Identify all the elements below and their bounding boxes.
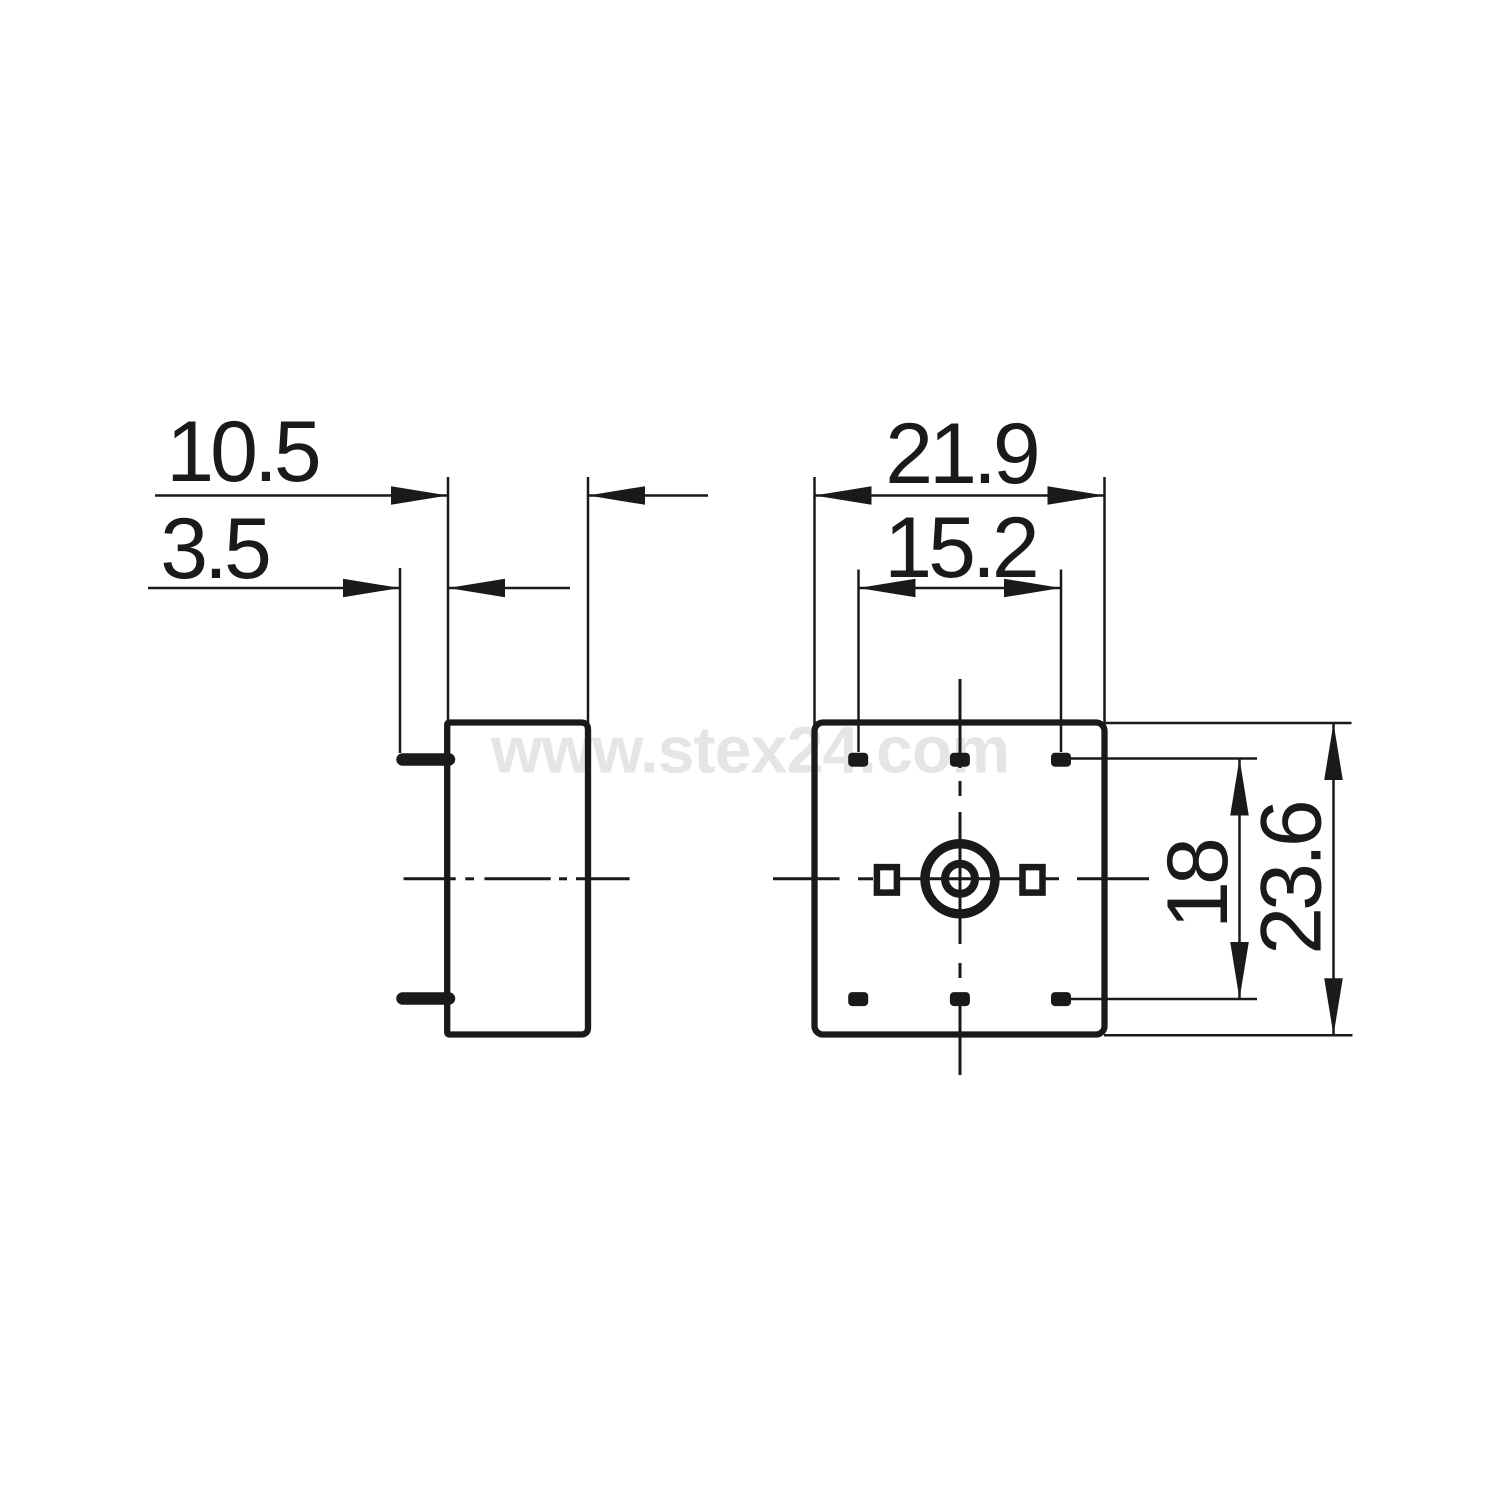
- extension line right-body-edge: [587, 477, 590, 736]
- extension line square-left: [813, 477, 816, 742]
- extension line square-right: [1103, 477, 1106, 742]
- svg-text:3.5: 3.5: [160, 501, 269, 597]
- dimension 10.5 arrow left: [391, 486, 448, 505]
- relay outline (bottom view square): [815, 723, 1105, 1035]
- extension line pads-right-column: [1060, 570, 1063, 753]
- extension line pin-end: [399, 568, 402, 753]
- dimension 18 arrow bottom: [1230, 942, 1249, 999]
- dimension 21.9 line: [815, 494, 1105, 497]
- side notch right: [1023, 867, 1043, 893]
- dimension 15.2 line: [859, 587, 1062, 590]
- pad bottom-left: [848, 992, 868, 1006]
- extension line square-bottom-right: [1104, 1034, 1353, 1037]
- guide boss inner circle: [945, 864, 975, 894]
- pad top-left: [848, 753, 868, 767]
- dimension 23.6 arrow bottom: [1324, 978, 1343, 1035]
- dimension 18 arrow top: [1230, 759, 1249, 816]
- centerline (left view horizontal dash-dot): [404, 877, 630, 880]
- dimension 15.2 arrow left: [859, 579, 916, 598]
- pad bottom-middle: [950, 992, 970, 1006]
- relay body (side view rectangle): [447, 723, 588, 1035]
- dimension 21.9 arrow left: [815, 486, 872, 505]
- dimension 10.5 line right: [588, 494, 708, 497]
- dimension 23.6 line: [1332, 723, 1335, 1035]
- dimension 3.5 arrow left: [343, 579, 400, 598]
- svg-text:21.9: 21.9: [885, 406, 1037, 502]
- dimension 23.6 arrow top: [1324, 723, 1343, 780]
- extension line pad-row-bottom: [1068, 998, 1257, 1001]
- extension line left-body-edge: [447, 477, 450, 728]
- pad bottom-right: [1051, 992, 1071, 1006]
- pad top-middle: [950, 753, 970, 767]
- dimension 10.5 line left: [155, 494, 448, 497]
- pin top (side view): [403, 753, 450, 766]
- svg-text:10.5: 10.5: [166, 404, 319, 500]
- dimension 3.5 line left: [148, 587, 400, 590]
- centerline vertical (right view dash-dot): [959, 679, 962, 1075]
- pad top-right: [1051, 753, 1071, 767]
- extension line square-top-right: [1104, 722, 1352, 725]
- pin bottom (side view): [403, 992, 450, 1005]
- svg-text:23.6: 23.6: [1244, 802, 1340, 955]
- svg-text:15.2: 15.2: [884, 500, 1036, 596]
- dimension 21.9 arrow right: [1048, 486, 1105, 505]
- extension line pads-left-column: [857, 570, 860, 753]
- centerline horizontal (right view dash-dot): [773, 877, 1149, 880]
- svg-text:18: 18: [1150, 840, 1246, 929]
- side notch left: [877, 867, 897, 893]
- dimension 3.5 line right: [448, 587, 570, 590]
- dimension 10.5 arrow right: [588, 486, 645, 505]
- guide boss outer circle: [925, 844, 995, 914]
- extension line pad-row-top: [1068, 757, 1257, 760]
- dimension 15.2 arrow right: [1004, 579, 1061, 598]
- dimension 18 line: [1238, 759, 1241, 1000]
- dimension 3.5 arrow right: [448, 579, 505, 598]
